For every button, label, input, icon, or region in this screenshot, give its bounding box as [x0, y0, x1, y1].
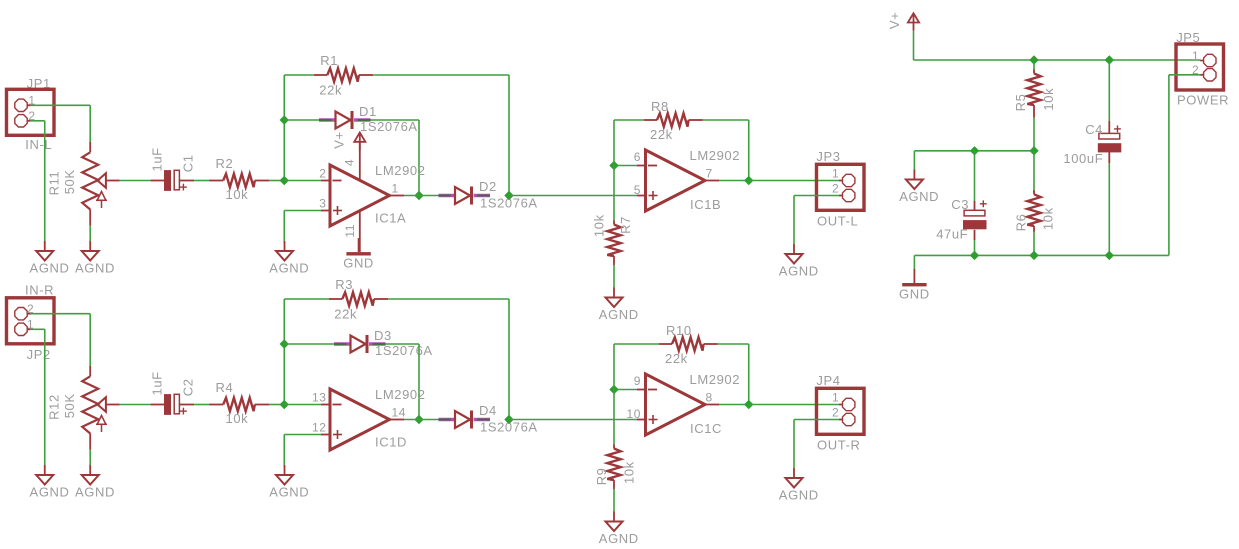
svg-text:R7: R7	[618, 216, 633, 234]
svg-text:11: 11	[343, 224, 357, 238]
ground AGND at IC1D +input	[269, 465, 309, 500]
wire	[194, 404, 209, 406]
connector JP4	[817, 388, 865, 434]
svg-text:R1: R1	[320, 53, 338, 68]
svg-text:IN-L: IN-L	[25, 137, 52, 152]
wire	[284, 119, 319, 121]
svg-text:1uF: 1uF	[150, 147, 165, 171]
op-amp IC1D	[330, 389, 390, 450]
resistor R7	[607, 221, 620, 266]
svg-text:JP4: JP4	[816, 373, 840, 388]
wire	[719, 404, 749, 406]
ground GND at IC1A pin 11	[343, 238, 374, 271]
svg-text:2: 2	[832, 405, 839, 419]
pin stub	[637, 419, 646, 421]
svg-text:GND: GND	[343, 256, 374, 271]
svg-text:GND: GND	[899, 287, 930, 302]
ground AGND under R11	[75, 241, 115, 276]
svg-text:9: 9	[634, 374, 641, 388]
svg-text:R8: R8	[651, 99, 669, 114]
wire down to R12	[89, 314, 91, 367]
pin stub	[637, 389, 646, 391]
wire	[283, 211, 285, 242]
junction	[971, 147, 979, 155]
svg-text:C4: C4	[1085, 122, 1103, 137]
svg-text:C1: C1	[180, 154, 195, 172]
junction	[1030, 56, 1038, 64]
svg-text:LM2902: LM2902	[375, 387, 426, 402]
wire	[269, 180, 284, 182]
connector JP2	[7, 298, 55, 344]
wire rail to C4	[1108, 60, 1110, 121]
ground AGND at JP4 pin 2	[779, 468, 819, 503]
plus mark of C2	[180, 408, 187, 415]
pin stub	[637, 165, 646, 167]
ground AGND under R9	[599, 512, 639, 547]
svg-text:C3: C3	[951, 197, 969, 212]
wire C4 to GND rail	[1108, 163, 1110, 255]
svg-text:47uF: 47uF	[936, 226, 968, 241]
net segment (2nd stage feedback right)	[748, 344, 750, 405]
svg-text:10k: 10k	[226, 187, 249, 202]
resistor R3	[329, 292, 388, 305]
svg-text:AGND: AGND	[779, 488, 819, 503]
capacitor C3	[963, 210, 987, 229]
ground AGND at IC1A +input	[269, 241, 309, 276]
op-amp IC1A	[330, 165, 390, 226]
wire	[89, 450, 91, 466]
wire R5 to AGND node	[1033, 118, 1035, 151]
svg-text:1uF: 1uF	[150, 371, 165, 395]
plus mark of C3	[980, 200, 987, 207]
net segment (inverting input node)	[283, 75, 285, 181]
svg-text:8: 8	[706, 391, 713, 405]
svg-text:22k: 22k	[665, 351, 688, 366]
wire	[794, 419, 839, 421]
svg-text:LM2902: LM2902	[375, 163, 426, 178]
net segment (diode to output)	[418, 120, 420, 196]
svg-text:R5: R5	[1013, 94, 1028, 112]
svg-text:12: 12	[312, 421, 327, 435]
wire	[974, 230, 976, 240]
wire	[719, 180, 749, 182]
svg-text:1S2076A: 1S2076A	[375, 343, 433, 358]
wire	[613, 489, 615, 512]
svg-text:AGND: AGND	[899, 189, 939, 204]
svg-text:R4: R4	[216, 380, 234, 395]
pin stub pin 4	[359, 142, 361, 180]
wire	[371, 119, 420, 121]
svg-text:LM2902: LM2902	[690, 148, 741, 163]
svg-text:50K: 50K	[62, 393, 77, 418]
resistor R2	[209, 174, 269, 187]
svg-text:V+: V+	[332, 131, 347, 148]
resistor R6	[1027, 190, 1040, 232]
wire	[1108, 121, 1110, 134]
net segment (feedback)	[508, 75, 510, 196]
net segment (to ground resistor)	[613, 166, 615, 221]
svg-text:3: 3	[319, 197, 326, 211]
svg-text:22k: 22k	[319, 83, 342, 98]
wire	[614, 343, 659, 345]
svg-text:D4: D4	[479, 403, 497, 418]
diode D3	[334, 335, 386, 353]
pin stub	[321, 210, 329, 212]
wire	[614, 165, 637, 167]
wire	[614, 119, 644, 121]
svg-text:1: 1	[1192, 49, 1199, 63]
wire	[283, 435, 285, 466]
net V+ rail	[914, 59, 1201, 61]
supply V+ power input	[908, 13, 919, 31]
op-amp IC1C	[646, 374, 706, 435]
junction	[745, 177, 753, 185]
svg-text:100uF: 100uF	[1063, 151, 1103, 166]
supply V+ at IC1A pin 4	[354, 133, 365, 151]
wire	[120, 180, 151, 182]
wire down to ground	[44, 121, 46, 242]
capacitor C1	[164, 170, 179, 191]
wire R6 to GND rail	[1033, 232, 1035, 256]
junction	[280, 177, 288, 185]
svg-text:AGND: AGND	[779, 264, 819, 279]
svg-text:R6: R6	[1013, 214, 1028, 232]
ground AGND under R12	[75, 465, 115, 500]
wire	[284, 74, 314, 76]
junction	[280, 401, 288, 409]
junction	[415, 416, 423, 424]
ground AGND power	[899, 170, 939, 205]
svg-text:10k: 10k	[622, 461, 637, 484]
svg-text:1: 1	[832, 390, 839, 404]
wire	[794, 195, 839, 197]
pin stub	[637, 195, 646, 197]
wire	[269, 404, 284, 406]
junction	[505, 192, 513, 200]
capacitor C2	[164, 394, 179, 415]
ground AGND under JP2	[30, 465, 70, 500]
net segment (feedback)	[508, 299, 510, 420]
svg-text:R3: R3	[335, 277, 353, 292]
junction	[1105, 251, 1113, 259]
wire	[386, 343, 420, 345]
svg-text:1S2076A: 1S2076A	[360, 119, 418, 134]
net AGND rail	[914, 150, 1034, 152]
ground AGND at JP3 pin 2	[779, 244, 819, 279]
svg-text:AGND: AGND	[269, 261, 309, 276]
wire	[180, 404, 195, 406]
net segment (inverting input node)	[283, 299, 285, 405]
svg-text:50K: 50K	[62, 169, 77, 194]
wire	[284, 180, 321, 182]
svg-text:10: 10	[626, 407, 641, 421]
junction	[745, 401, 753, 409]
wire down to R11	[89, 105, 91, 143]
resistor R10	[659, 337, 718, 350]
net segment (to 2nd stage +input)	[509, 195, 637, 197]
wire	[613, 265, 615, 288]
svg-text:LM2902: LM2902	[690, 372, 741, 387]
wire	[180, 180, 195, 182]
wire from JP5 pin 2	[1169, 74, 1201, 76]
svg-text:2: 2	[319, 167, 326, 181]
plus mark of C1	[180, 184, 187, 191]
pin stub	[321, 434, 329, 436]
svg-text:1: 1	[832, 166, 839, 180]
svg-text:10k: 10k	[226, 411, 249, 426]
pin stub pin 11	[359, 211, 361, 252]
wire down to ground	[44, 329, 46, 465]
pin stub	[321, 180, 329, 182]
svg-text:C2: C2	[180, 378, 195, 396]
potentiometer R12	[82, 366, 119, 450]
net segment (2nd stage feedback right)	[748, 120, 750, 181]
svg-text:22k: 22k	[334, 307, 357, 322]
pin stub	[390, 419, 405, 421]
svg-text:4: 4	[343, 159, 357, 166]
svg-text:IC1D: IC1D	[375, 435, 407, 450]
junction	[1030, 147, 1038, 155]
net segment (2nd stage feedback left)	[613, 344, 615, 390]
svg-text:OUT-R: OUT-R	[817, 438, 860, 453]
net segment (to ground resistor)	[613, 390, 615, 445]
wire	[404, 195, 439, 197]
wire	[284, 434, 321, 436]
connector JP3	[817, 164, 865, 210]
wire	[1108, 151, 1110, 163]
net segment (to output connector)	[749, 404, 840, 406]
wire	[284, 404, 321, 406]
svg-text:JP2: JP2	[27, 347, 51, 362]
svg-text:5: 5	[634, 183, 641, 197]
junction	[280, 340, 288, 348]
wire AGND node to C3	[974, 151, 976, 201]
svg-text:AGND: AGND	[30, 485, 70, 500]
svg-text:22k: 22k	[650, 127, 673, 142]
wire rail to R5	[1033, 60, 1035, 70]
pin stub	[390, 195, 405, 197]
resistor R8	[644, 113, 703, 126]
svg-text:R11: R11	[47, 171, 62, 196]
wire JP5 pin 2 down to GND rail	[1168, 75, 1170, 256]
svg-text:13: 13	[312, 391, 327, 405]
svg-text:1: 1	[392, 182, 399, 196]
svg-text:JP3: JP3	[816, 149, 840, 164]
junction	[280, 116, 288, 124]
wire	[718, 343, 749, 345]
svg-text:R12: R12	[47, 394, 62, 420]
svg-text:AGND: AGND	[75, 485, 115, 500]
svg-text:AGND: AGND	[599, 531, 639, 546]
svg-text:7: 7	[706, 167, 713, 181]
pin stub	[705, 180, 719, 182]
svg-text:AGND: AGND	[75, 261, 115, 276]
resistor R1	[314, 68, 373, 81]
diode D2	[439, 187, 491, 205]
wire	[284, 298, 329, 300]
svg-text:10k: 10k	[1041, 88, 1056, 111]
connector JP1	[7, 89, 55, 135]
svg-text:6: 6	[634, 150, 641, 164]
plus mark of C4	[1114, 126, 1121, 133]
net segment (diode to output)	[418, 344, 420, 420]
svg-text:D1: D1	[359, 104, 377, 119]
pin stub	[321, 404, 329, 406]
wire	[404, 419, 439, 421]
svg-text:14: 14	[392, 406, 407, 420]
wire to AGND symbol	[913, 151, 915, 170]
wire	[89, 226, 91, 242]
wire	[793, 196, 795, 245]
wire from JP2 pin 2	[31, 313, 90, 315]
pin stub	[705, 404, 719, 406]
svg-text:R2: R2	[216, 156, 234, 171]
ground AGND under R7	[599, 288, 639, 323]
svg-text:AGND: AGND	[30, 261, 70, 276]
wire AGND node to R6	[1033, 151, 1035, 192]
wire	[120, 404, 151, 406]
wire	[388, 298, 509, 300]
junction	[610, 162, 618, 170]
op-amp IC1B	[646, 150, 706, 211]
junction	[505, 416, 513, 424]
wire	[284, 210, 321, 212]
wire	[974, 201, 976, 210]
wire from JP1 pin 2	[31, 120, 45, 122]
resistor R4	[209, 398, 269, 411]
wire	[151, 180, 164, 182]
svg-text:IC1A: IC1A	[375, 211, 406, 226]
wire	[614, 389, 637, 391]
svg-text:V+: V+	[887, 12, 902, 29]
svg-text:AGND: AGND	[599, 307, 639, 322]
net GND rail	[914, 254, 1169, 256]
wire	[151, 404, 164, 406]
wire V+ down	[913, 31, 915, 60]
svg-text:IC1C: IC1C	[690, 421, 722, 436]
diode D4	[439, 411, 491, 429]
junction	[610, 386, 618, 394]
junction	[1030, 251, 1038, 259]
svg-text:R10: R10	[666, 323, 692, 338]
net segment (to 2nd stage +input)	[509, 419, 637, 421]
svg-text:OUT-L: OUT-L	[817, 214, 858, 229]
diode D1	[319, 111, 371, 129]
svg-text:AGND: AGND	[269, 485, 309, 500]
net segment (2nd stage feedback left)	[613, 120, 615, 166]
junction	[415, 192, 423, 200]
svg-text:D2: D2	[479, 179, 497, 194]
svg-text:2: 2	[832, 181, 839, 195]
wire	[284, 343, 334, 345]
wire	[373, 74, 509, 76]
wire	[194, 180, 209, 182]
wire	[703, 119, 749, 121]
net segment (to output connector)	[749, 180, 840, 182]
ground AGND under JP1	[30, 241, 70, 276]
resistor R9	[607, 445, 620, 490]
wire to GND symbol	[913, 255, 915, 269]
wire	[793, 420, 795, 469]
svg-text:IC1B: IC1B	[690, 197, 721, 212]
connector JP5	[1176, 44, 1224, 90]
ground GND power	[899, 269, 930, 302]
wire from JP2 pin 1	[31, 328, 45, 330]
junction	[1105, 56, 1113, 64]
svg-text:POWER: POWER	[1177, 93, 1229, 108]
svg-text:R9: R9	[594, 467, 609, 485]
wire C3 to GND rail	[974, 240, 976, 255]
svg-text:D3: D3	[374, 328, 392, 343]
junction	[971, 251, 979, 259]
potentiometer R11	[82, 142, 119, 226]
capacitor C4	[1098, 133, 1122, 152]
svg-text:IN-R: IN-R	[25, 282, 54, 297]
wire from JP1 pin 1	[31, 104, 90, 106]
resistor R5	[1027, 70, 1040, 118]
svg-text:10k: 10k	[592, 214, 607, 237]
svg-text:10k: 10k	[1041, 207, 1056, 230]
